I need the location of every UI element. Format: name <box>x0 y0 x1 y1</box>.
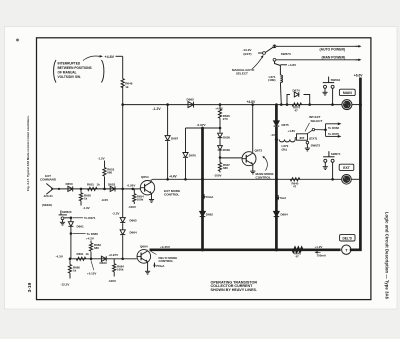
svg-text:R651: R651 <box>87 182 94 186</box>
svg-text:(SEEK): (SEEK) <box>42 203 52 207</box>
svg-text:D636: D636 <box>223 136 230 140</box>
svg-text:1k: 1k <box>73 269 77 273</box>
svg-text:OF MANUAL: OF MANUAL <box>58 71 77 75</box>
svg-text:1k: 1k <box>125 85 129 89</box>
svg-text:(2k): (2k) <box>282 148 287 152</box>
svg-text:1k: 1k <box>97 182 101 186</box>
svg-text:47: 47 <box>296 254 300 258</box>
svg-text:To D671: To D671 <box>84 216 96 220</box>
svg-text:(EXT): (EXT) <box>309 136 317 140</box>
svg-text:-9.6V: -9.6V <box>101 198 108 202</box>
svg-text:+4.8V: +4.8V <box>288 129 296 133</box>
svg-text:-4.4V: -4.4V <box>169 175 177 179</box>
svg-text:680: 680 <box>94 246 99 250</box>
svg-text:DEL'D: DEL'D <box>342 236 352 240</box>
svg-text:D663: D663 <box>100 261 108 265</box>
svg-text:-100V: -100V <box>128 205 136 209</box>
svg-text:INTERRUPTED: INTERRUPTED <box>58 62 81 66</box>
svg-text:D675: D675 <box>282 123 290 127</box>
svg-text:(40E): (40E) <box>268 78 275 82</box>
svg-text:+4.8V: +4.8V <box>215 107 223 111</box>
svg-text:+6.6V: +6.6V <box>354 73 364 77</box>
svg-text:MAIN: MAIN <box>343 91 352 95</box>
svg-text:SW673: SW673 <box>281 52 291 56</box>
svg-text:CONTROL: CONTROL <box>164 193 179 197</box>
svg-text:D639: D639 <box>223 148 230 152</box>
svg-text:-4.3V: -4.3V <box>56 254 64 258</box>
svg-text:(AUTO POWER): (AUTO POWER) <box>320 47 346 51</box>
svg-text:+4.8V: +4.8V <box>247 100 257 104</box>
svg-text:SELECT: SELECT <box>236 72 248 76</box>
svg-text:J20-21: J20-21 <box>44 194 54 198</box>
svg-text:D664: D664 <box>281 212 289 216</box>
svg-text:(EXT): (EXT) <box>243 52 251 56</box>
svg-text:Q673: Q673 <box>255 148 263 152</box>
svg-text:SW634: SW634 <box>331 78 341 82</box>
svg-text:D665: D665 <box>130 219 138 223</box>
svg-text:-2.2V: -2.2V <box>112 212 120 216</box>
svg-text:D661: D661 <box>77 224 85 228</box>
svg-text:To D662: To D662 <box>328 126 339 130</box>
svg-text:SW620: SW620 <box>62 210 72 214</box>
svg-text:D650: D650 <box>66 182 74 186</box>
svg-text:D670: D670 <box>189 153 197 157</box>
svg-text:750uA: 750uA <box>156 264 164 268</box>
svg-text:EXT: EXT <box>343 166 351 170</box>
svg-text:-1V: -1V <box>270 133 275 137</box>
svg-text:+4.8V: +4.8V <box>105 55 115 59</box>
svg-text:-0.26V: -0.26V <box>127 183 136 187</box>
svg-text:D667: D667 <box>171 136 179 140</box>
svg-text:750mA: 750mA <box>317 253 327 257</box>
svg-text:1k: 1k <box>86 252 90 256</box>
svg-text:47: 47 <box>293 185 297 189</box>
svg-text:1k: 1k <box>84 197 88 201</box>
svg-text:680: 680 <box>223 166 228 170</box>
svg-text:-1.2V: -1.2V <box>98 156 105 160</box>
svg-text:D653: D653 <box>108 182 116 186</box>
svg-text:To D670: To D670 <box>328 132 339 136</box>
svg-text:5mA: 5mA <box>280 196 287 200</box>
svg-text:3-19: 3-19 <box>27 282 33 292</box>
svg-text:D664: D664 <box>130 231 138 235</box>
svg-text:+0.97V: +0.97V <box>109 253 119 257</box>
svg-text:-12.2V: -12.2V <box>61 282 70 286</box>
svg-text:Q654: Q654 <box>141 175 149 179</box>
svg-text:Q664: Q664 <box>140 245 148 249</box>
svg-text:100k: 100k <box>137 198 144 202</box>
svg-text:SW674: SW674 <box>331 152 341 156</box>
svg-text:COMMAND: COMMAND <box>40 178 57 182</box>
svg-text:(MAN POWER): (MAN POWER) <box>322 56 346 60</box>
svg-text:CONTROL: CONTROL <box>159 259 174 263</box>
svg-text:SHOWN BY HEAVY LINES.: SHOWN BY HEAVY LINES. <box>211 288 258 292</box>
svg-text:47: 47 <box>295 109 299 113</box>
svg-text:680: 680 <box>107 171 112 175</box>
svg-text:D674: D674 <box>293 88 301 92</box>
svg-text:100k: 100k <box>117 268 124 272</box>
svg-text:50mA: 50mA <box>206 195 215 199</box>
svg-text:CONTROL: CONTROL <box>256 176 271 180</box>
svg-text:D662: D662 <box>206 212 214 216</box>
svg-text:270: 270 <box>223 117 228 121</box>
svg-text:+3.45V: +3.45V <box>160 245 171 249</box>
svg-text:+4.2V: +4.2V <box>86 236 94 240</box>
svg-text:-1.2V: -1.2V <box>153 107 162 111</box>
svg-text:To D660: To D660 <box>87 232 99 236</box>
svg-text:-100V: -100V <box>108 279 116 283</box>
svg-text:+0.12V: +0.12V <box>87 271 96 275</box>
svg-text:D665: D665 <box>187 98 195 102</box>
svg-text:SW672: SW672 <box>311 143 321 147</box>
svg-text:SELECT: SELECT <box>311 119 323 123</box>
svg-text:-100V: -100V <box>214 173 222 177</box>
svg-text:BETWEEN POSITIONS: BETWEEN POSITIONS <box>58 66 92 70</box>
svg-text:R661: R661 <box>77 252 84 256</box>
svg-text:Fig. 3-17. Typical 3A6 Mode co: Fig. 3-17. Typical 3A6 Mode control circ… <box>26 115 30 191</box>
svg-text:Logic and Circuit Description: Logic and Circuit Description — Type 3A6 <box>384 212 389 300</box>
svg-text:VOLTS/DIV SW.: VOLTS/DIV SW. <box>58 75 81 79</box>
svg-text:INT: INT <box>300 136 305 140</box>
svg-text:+1.2V: +1.2V <box>315 245 323 249</box>
svg-text:+4.8V: +4.8V <box>288 63 297 67</box>
svg-text:-0.97V: -0.97V <box>197 123 207 127</box>
svg-text:-1.3V: -1.3V <box>83 206 90 210</box>
